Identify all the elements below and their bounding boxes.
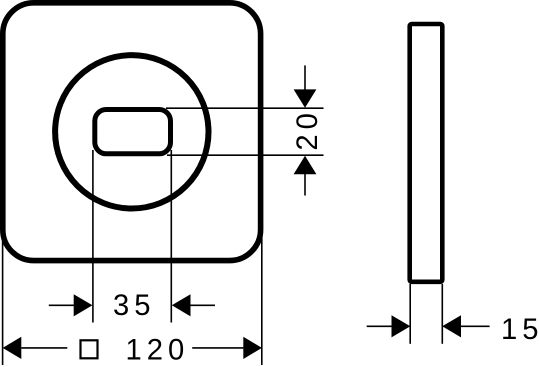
- svg-text:35: 35: [113, 290, 155, 322]
- dim20: up arrowhead: [294, 156, 317, 175]
- dim15: left-pointing arrowhead: [442, 315, 461, 337]
- front view: circle: [55, 55, 208, 208]
- dim35: right leader line: [190, 304, 215, 306]
- side view: plate outline: [410, 24, 443, 282]
- dim120: left-pointing arrowhead: [3, 337, 22, 359]
- dim20: lower leader line: [304, 165, 306, 196]
- dim20: top extension line: [166, 107, 324, 109]
- svg-text:20: 20: [292, 108, 324, 150]
- dim20: down arrowhead: [294, 89, 317, 107]
- dim35: left-pointing arrowhead: [172, 294, 191, 316]
- dim120: right extension line: [261, 231, 263, 365]
- dim120: square symbol: [81, 340, 98, 358]
- dim20: bottom extension line: [167, 154, 324, 156]
- dim35: right-pointing arrowhead: [74, 294, 93, 316]
- dim15: right leader line: [461, 325, 490, 327]
- dim15: right extension line: [441, 284, 443, 344]
- dim35: left leader line: [49, 304, 75, 306]
- dim120: left leader line: [21, 347, 67, 349]
- dim15: right-pointing arrowhead: [392, 315, 411, 337]
- dim35: left extension line: [92, 150, 94, 323]
- dim15: left leader line: [367, 325, 393, 327]
- dim20: upper leader line: [304, 65, 306, 98]
- dim120: right leader line: [192, 347, 243, 349]
- front view: rounded square escutcheon outline: [3, 3, 261, 261]
- dim120: left extension line: [2, 231, 4, 365]
- dim120: right-pointing arrowhead: [243, 337, 262, 359]
- dim35: right extension line: [170, 150, 172, 323]
- svg-text:15: 15: [501, 314, 539, 346]
- front view: central rounded rectangle opening: [95, 110, 171, 154]
- svg-text:120: 120: [126, 334, 190, 366]
- dim15: left extension line: [409, 284, 411, 344]
